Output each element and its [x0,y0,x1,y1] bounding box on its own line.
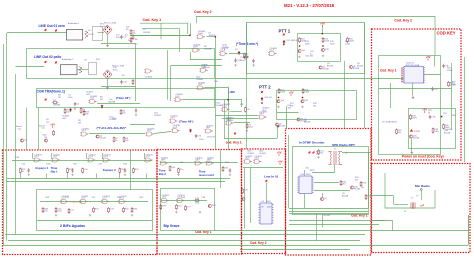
wire mic radio path [385,173,435,208]
wire grave box mid v [220,151,222,189]
wire bip stub 0 [20,174,22,179]
svg-text:Line In 01: Line In 01 [264,175,279,179]
gate bifs row U10-4 [118,200,127,204]
svg-text:CD4011: CD4011 [162,195,170,197]
capacitor C17 [120,35,122,39]
svg-text:100n: 100n [68,97,72,99]
resistor R17 100R [278,88,280,94]
resistor bip1 r1 [19,168,21,174]
wire codkey2 a [243,167,283,169]
wire bottom bus g [240,249,350,251]
wire codkey chip out [424,74,442,76]
svg-text:33k: 33k [290,106,293,108]
ground cod key [410,151,413,154]
chip UM3758 left pin arrows [401,68,403,83]
svg-text:BC548: BC548 [304,122,311,124]
svg-text:CD4081: CD4081 [226,120,234,122]
wire right v2 [344,61,346,128]
wire u5-2 out [230,111,242,113]
svg-text:CD4011: CD4011 [196,157,204,159]
svg-text:C1u: C1u [180,169,184,171]
resistor R1 [132,34,134,40]
svg-text:CD4081: CD4081 [173,125,181,127]
gate U1-B CD4081 [192,48,201,52]
wire bip stub 4 [119,174,121,179]
resistor bip1 r2 [67,168,69,174]
wire right outer v [464,57,466,162]
wire dtmf mid h [314,182,339,184]
svg-text:reset cod.2: reset cod.2 [199,173,215,177]
svg-text:(*Time 3 min.*): (*Time 3 min.*) [236,42,258,46]
resistor grave r1 [169,166,171,172]
bridge rectifier BR2 [103,70,112,79]
transformer T1 [329,151,343,165]
wire bifs inner low [37,220,152,222]
gate U2-2 [146,132,155,136]
transistor Q2-1 [96,135,99,138]
subcircuit box PTT inner [298,34,341,62]
svg-text:C1n: C1n [18,128,22,130]
wire mid v5 [190,23,192,35]
resistor R43k [53,130,55,136]
svg-text:TL072: TL072 [88,34,95,36]
gate grave row2 U9-2 [176,199,185,203]
svg-text:Power on reset (Cod. Key): Power on reset (Cod. Key) [402,154,444,158]
wire dtmf top entry [286,106,288,128]
gate bip row1 U7-4 [102,158,111,162]
resistor grave r2 [178,168,180,174]
svg-text:CD4081: CD4081 [198,31,206,33]
svg-text:1u: 1u [310,54,312,56]
wire mid h3 [171,65,222,67]
capacitor bip1 c1 [28,168,30,172]
wire mid v6 [167,50,169,100]
subcircuit box PTT2 [277,91,357,120]
gate U1-1 cor [89,100,98,104]
svg-text:BC548: BC548 [279,125,286,127]
wire u2 input row [190,59,222,61]
resistor R38 100k [432,128,434,134]
section box Bip Grave [157,150,242,255]
section box Mic Radio [372,164,471,253]
audio amp 1 module [67,29,83,40]
svg-text:BC548: BC548 [353,68,360,70]
svg-text:CD4069: CD4069 [147,128,155,130]
resistor R7 [130,29,132,35]
capacitor C13 [234,58,236,62]
gate bifs row U10-3 [101,200,110,204]
transistor Q2-2 [20,139,23,142]
wire u5 col [234,122,251,124]
gate U2-4 [268,52,277,56]
resistor R10 100R [299,37,301,43]
resistor grave r4 [160,204,162,210]
capacitor C7b [195,134,197,138]
resistor R8 [130,37,132,43]
svg-text:COD KEY: COD KEY [437,30,456,35]
svg-text:1N4148: 1N4148 [143,32,151,34]
wire rect2 drop [107,79,109,86]
diode D9b [189,129,191,133]
svg-text:1N4148: 1N4148 [204,49,212,51]
wire cor drop [241,100,243,107]
gate bip row1 U7-5 [144,158,153,162]
wire bip top stub 1 [51,153,53,159]
wire cor out [97,103,140,105]
wire u3 out drop [228,88,230,106]
svg-text:C1u: C1u [70,210,74,212]
wire dtmf chip top [304,170,306,176]
gate bifs row U10-1 [60,200,69,204]
wire mid box right v [277,127,279,139]
svg-text:100n: 100n [46,164,50,166]
wire bottom bus f [4,245,469,247]
svg-text:CD4011: CD4011 [259,153,267,155]
svg-text:CD4011: CD4011 [171,115,179,117]
svg-text:C1n: C1n [41,128,45,130]
wire mid v4 [170,65,172,101]
wire line in drop [266,183,268,203]
svg-text:Espaço 1: Espaço 1 [36,166,49,170]
wire codkey left v [390,83,392,108]
subcircuit box bifs agudos [37,190,153,231]
gate U5-3 [225,121,234,125]
wire mic pin drop [421,191,423,201]
ground symbol 19 [246,130,248,132]
wire ptt2 h1 [215,115,258,117]
rectifier block 2 [89,63,97,75]
gate U8-4 CD4011 [253,160,262,164]
svg-text:PTT 2: PTT 2 [259,85,271,90]
resistor codkey2 left [242,188,244,194]
svg-text:(Time 48°): (Time 48°) [179,120,193,124]
resistor R9b [244,53,246,59]
connector J2 pin 2 [55,61,57,63]
wire left v x38 [38,108,40,151]
svg-text:10k: 10k [44,137,47,139]
wire ptt2 down1 [286,119,288,129]
resistor R5c 10k [80,108,82,114]
wire dtmf right v [368,153,370,209]
capacitor grave c1 [229,168,231,172]
svg-text:1k: 1k [428,113,430,115]
+5V codkey lower [422,108,427,114]
svg-text:33k: 33k [288,107,291,109]
svg-text:100u: 100u [199,139,203,141]
svg-text:10k: 10k [398,132,401,134]
gate U8-3 CD4011 [244,160,253,164]
resistor R12 100R [322,37,324,43]
wire grave row2 bus [161,200,207,202]
transistor Q7 [297,118,300,121]
svg-text:CD4011: CD4011 [161,157,169,159]
svg-text:CD4071: CD4071 [206,125,214,127]
svg-text:PTT 1: PTT 1 [279,29,291,34]
resistor bifs r2 [55,207,57,213]
svg-text:100R: 100R [349,41,354,43]
capacitor C5 [135,108,137,112]
svg-text:100R: 100R [324,41,329,43]
wire mic radio in2 [371,220,392,222]
resistor Rm1 [113,137,115,143]
ground symbol 14 [252,64,254,66]
svg-text:CD4011: CD4011 [89,154,97,156]
svg-text:10k: 10k [122,113,125,115]
svg-text:CD4011: CD4011 [245,156,253,158]
transistor grave q [208,204,211,207]
svg-text:CD4081: CD4081 [223,104,231,106]
wire dtmf mid h2 [314,190,350,192]
svg-text:CD4069: CD4069 [262,108,270,110]
svg-text:CD4081: CD4081 [270,48,278,50]
resistor Rm2 [123,137,125,143]
resistor R36 100R [410,114,412,120]
svg-text:(*T+K1+R1+K2+R2)*: (*T+K1+R1+K2+R2)* [97,126,127,130]
svg-text:CD4011: CD4011 [255,156,263,158]
subcircuit box bip grave inner [161,189,215,231]
junction dot 4 [283,44,284,45]
dtmf chip MT8870 [297,176,313,194]
svg-text:CD4011: CD4011 [222,47,230,49]
svg-text:10k: 10k [66,112,69,114]
resistor grave r6 [185,205,187,211]
subcircuit box PTT outer [247,23,365,74]
gate U5-1 CD4011 [169,119,178,123]
junction dot 6 [322,33,323,34]
wire mic radio in1 [371,195,394,197]
resistor R5b [64,108,66,114]
+5V cod key [426,55,431,61]
resistor bip1 r5 [133,168,135,174]
ground codkey chip [412,96,415,99]
svg-text:RV1 4 x 4148: RV1 4 x 4148 [104,23,117,25]
gate U3-2 CD4081 [197,86,206,90]
ground symbol 6 [89,214,91,216]
wire bip stub 1 [46,174,48,179]
wire u2 column [215,37,217,150]
wire mid box left v [224,100,226,139]
svg-text:◄ P: ◄ P [420,205,425,208]
connector mic radio pin [420,188,422,190]
svg-text:CD4011: CD4011 [154,115,162,117]
wire codkey mid h [379,88,451,90]
resistor R2 [132,79,134,85]
wire bottom bus b [289,224,379,226]
junction dot 5 [261,102,262,103]
gate bifs row U10-2 [80,200,89,204]
connector J1 pin 2 [55,29,57,31]
wire bottom bus a [289,220,385,222]
svg-text:Pin 10 BITS(RT): Pin 10 BITS(RT) [382,122,397,124]
section box DTMF decoder [286,129,372,256]
ground rect1 [106,44,109,47]
svg-text:10k: 10k [316,154,319,156]
ground symbol 15 [74,108,76,110]
svg-text:M21 - V.12.3 - 27/07/2018: M21 - V.12.3 - 27/07/2018 [284,3,335,8]
wire left bus v2 [6,33,8,241]
connector mid pin red [234,132,236,134]
subcircuit box codkey lower [409,109,456,149]
resistor R39b [443,124,445,130]
ground symbol 2 [124,174,126,176]
wire codkey chip down [412,83,414,96]
wire mid h2 [98,32,105,34]
subcircuit box COR TRX [37,89,215,108]
gate bip row1 U7-2 [52,158,61,162]
wire mid h amp1 [130,35,190,37]
svg-text:LINE Out 01 zero: LINE Out 01 zero [39,24,65,28]
svg-text:(Time 48°): (Time 48°) [116,96,130,100]
junction dot 7 [189,35,190,36]
svg-text:CD4011: CD4011 [53,154,61,156]
wire right v1 [364,22,366,128]
connector J2 pin [44,61,46,63]
svg-text:10u: 10u [46,122,49,124]
svg-text:CD4011: CD4011 [35,154,43,156]
capacitor C36 [442,64,444,68]
wire left v x26 [26,108,28,151]
wire dtmf local bus 3 [289,213,368,215]
wire codkey2 v [244,168,246,229]
wire left box h1 [7,178,230,180]
wire mid v7 [135,44,137,102]
svg-text:BC548: BC548 [100,137,107,139]
resistor R16b [83,110,85,116]
svg-text:BC548: BC548 [413,137,420,139]
svg-text:100n: 100n [57,211,61,213]
wire bip top stub 0 [32,153,34,159]
wire cod key 2 stub [196,17,198,24]
svg-text:CD4011: CD4011 [104,154,112,156]
svg-text:C1u: C1u [84,169,88,171]
transistor Q5 BC548 [319,66,322,69]
wire mid v3 [228,87,230,151]
resistor bip1 r4 [119,168,121,174]
gate grave row1 U8-1 [160,161,169,165]
gate U2-B CD4081 [199,68,208,72]
svg-text:+5V: +5V [422,108,427,112]
wire t1 to chip [312,172,335,174]
wire mid v1 [246,22,248,149]
svg-text:CD4011: CD4011 [103,196,111,198]
wire cod key 1 net [140,23,188,34]
svg-text:BC548: BC548 [323,68,330,70]
svg-text:1.8M: 1.8M [228,90,235,94]
wire left bus v1 [3,44,5,246]
gate U5-2 CD4011 [221,108,230,112]
section box bips left [3,150,158,255]
transistor Q6 BC548 [349,65,352,68]
svg-text:100k: 100k [434,131,438,133]
wire dtmf v322 [322,214,324,228]
capacitor C9c [252,59,254,63]
+5V u8 gates [277,151,282,157]
transistor Q15 [409,135,412,138]
gate bip row1 U7-3 [87,158,96,162]
transistor Q3 [277,100,280,103]
svg-text:CD4081: CD4081 [216,105,224,107]
svg-text:10k: 10k [126,27,129,29]
svg-text:100n: 100n [248,127,252,129]
svg-text:+5V: +5V [277,151,282,155]
ground symbol 7 [131,214,133,216]
svg-text:Espaço 2: Espaço 2 [103,168,116,172]
svg-text:CD4081: CD4081 [90,96,98,98]
svg-text:CD4011: CD4011 [247,153,255,155]
transistor Q4 [301,100,304,103]
ground symbol 17 [234,64,236,66]
svg-text:Cod. Key 2: Cod. Key 2 [250,241,267,245]
wire lower left [89,133,145,135]
bridge rectifier BR1 [103,25,112,34]
resistor R9c [243,56,249,58]
wire ptt2 h2 [222,118,258,120]
gate U2-A CD4011 [219,52,228,56]
+5V left [50,123,55,129]
wire u3 row h [130,124,155,126]
svg-text:Bip 1: Bip 1 [51,170,58,174]
gate U1-A CD4081 [197,35,206,39]
diode D9 [238,51,240,55]
svg-text:470u: 470u [116,37,120,39]
wire dtmf v316 [316,214,318,241]
svg-text:470u: 470u [113,70,117,72]
wire left bus v3 [15,74,17,235]
resistor R16 [347,37,349,43]
svg-text:CD4081: CD4081 [196,79,204,81]
svg-text:Cod. Key 2: Cod. Key 2 [394,19,412,23]
resistor bip1 r3 [82,168,84,174]
gate grave row2 U9-1 [161,199,170,203]
connector PTT1 pin [283,33,285,35]
capacitor C35 [431,87,433,91]
wire cor long [183,99,242,101]
resistor R18 [302,88,304,94]
wire line out 02 feed [16,66,45,68]
svg-text:BC548: BC548 [357,66,364,68]
wire cod key 2 net [196,17,435,56]
svg-text:CD4081: CD4081 [62,116,70,118]
ground symbol 8 [175,211,177,213]
svg-text:Cod. Key 2: Cod. Key 2 [194,10,212,14]
svg-text:BC548: BC548 [342,196,349,198]
transistor Q9b [275,123,278,126]
gate U2-3 [171,129,180,133]
resistor R37 10k [396,129,398,135]
svg-text:1M(1W): 1M(1W) [53,105,60,107]
wire codkey chip in [215,78,403,80]
resistor grave rh [194,200,200,202]
svg-text:Cod. Key 1: Cod. Key 1 [380,68,397,72]
connector J1 pin [44,29,46,31]
ground symbol 16 [135,114,137,116]
svg-text:cod. Key 1: cod. Key 1 [226,140,242,144]
wire bip stub 5 [146,174,148,179]
svg-text:10k: 10k [85,114,88,116]
svg-text:1k: 1k [22,171,24,173]
wire bip top stub 2 [86,153,88,159]
svg-text:D9 4148: D9 4148 [207,137,215,139]
+5V ptt1 [320,22,325,28]
svg-text:C7N: C7N [195,198,200,200]
wire codkey right v [451,63,453,130]
resistor R31 4k7 [340,180,342,186]
transistor Q2 [321,48,324,51]
diode D12 [261,97,263,101]
wire bip row1 bus [12,160,152,162]
svg-text:1M: 1M [58,97,61,99]
wire left box h2 [7,181,225,183]
